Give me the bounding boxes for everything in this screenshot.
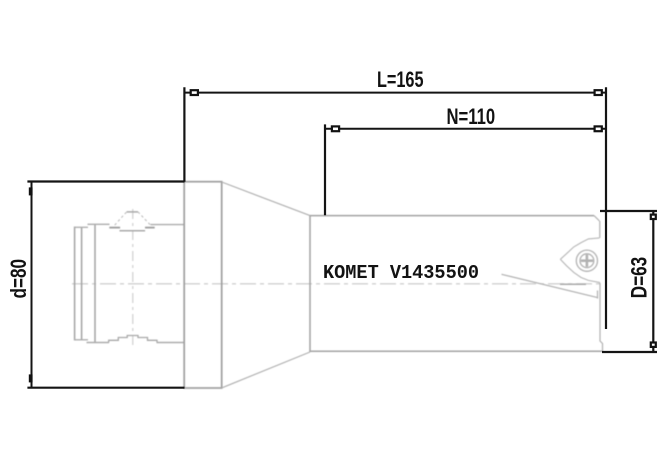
dimension d bottom arrow square (29, 374, 33, 382)
flute diagonal to cutting tip (502, 274, 598, 297)
dimension N extension left vertical (324, 124, 326, 215)
dimension L/N extension right vertical (605, 87, 607, 329)
shank ring 3 (94, 224, 96, 342)
dimension d extension bottom (27, 387, 184, 389)
body top right chamfer (594, 216, 600, 221)
shank top line left (88, 223, 110, 225)
flange rectangle (184, 182, 222, 388)
cam slot right shoulder (145, 227, 155, 229)
dimension L line (184, 92, 606, 94)
dimension L left arrow square (191, 90, 198, 95)
shank top ledge (74, 226, 88, 228)
insert screw inner circle (580, 254, 594, 268)
svg-text:L=165: L=165 (377, 67, 424, 92)
cam slot floor (120, 230, 146, 232)
dimension d top arrow square (29, 187, 33, 195)
dimension D line (652, 211, 654, 352)
insert screw cross vertical (586, 255, 589, 267)
body right edge upper (599, 221, 601, 238)
pocket shelf line (560, 283, 586, 285)
shank bottom line right (157, 342, 185, 344)
cam trapezoid left slope (115, 212, 127, 225)
shank bottom ledge (74, 339, 88, 341)
cam slot left shoulder (109, 227, 120, 229)
dimension d extension top (27, 180, 184, 182)
svg-text:KOMET V1435500: KOMET V1435500 (323, 262, 479, 284)
cam trapezoid right slope (138, 212, 151, 225)
svg-text:d=80: d=80 (6, 259, 31, 299)
dimension N left arrow square (332, 126, 339, 131)
dimension d line (31, 182, 33, 388)
insert pocket eye bottom edge (560, 259, 600, 282)
shank top line right (151, 224, 185, 226)
cone body junction (309, 216, 311, 352)
body bottom edge (310, 350, 603, 352)
bottom cam step outer left (109, 336, 157, 343)
body top edge (310, 215, 594, 217)
dimension D top arrow square (651, 215, 656, 219)
dimension N line (325, 128, 606, 130)
dimension D extension bottom (602, 351, 657, 353)
shank left edge ring 1 (74, 227, 76, 341)
dimension D extension top (600, 210, 657, 212)
centerline horizontal axis (72, 283, 603, 285)
svg-text:N=110: N=110 (447, 104, 496, 129)
cutting tip vertical jog (597, 291, 599, 299)
dimension L right arrow square (595, 90, 602, 95)
cone bottom edge (222, 352, 310, 388)
dimension L extension left vertical (183, 87, 185, 182)
body right edge lower (600, 283, 603, 351)
svg-text:D=63: D=63 (627, 257, 652, 299)
dimension N right arrow square (595, 126, 602, 131)
shank bottom line left (87, 342, 110, 344)
shank ring 2 (81, 227, 83, 339)
cone top edge (222, 182, 310, 216)
insert pocket eye top edge (560, 238, 599, 259)
centerline vertical cam axis (132, 209, 134, 346)
cam trapezoid top plateau (127, 211, 138, 213)
insert screw outer circle (576, 250, 597, 271)
dimension D bottom arrow square (651, 343, 656, 347)
insert screw cross horizontal (581, 259, 593, 262)
